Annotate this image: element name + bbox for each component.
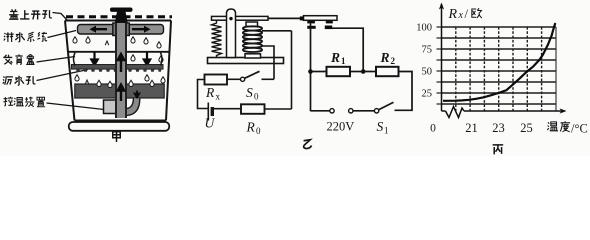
resistor R0 box [241, 104, 265, 114]
switch S0 [241, 77, 245, 81]
wire: Rx to S0 [227, 78, 240, 80]
right stationary contact [326, 21, 333, 24]
battery U [207, 103, 209, 121]
relay armature arm bar [212, 16, 269, 20]
temp control device box [104, 100, 117, 114]
resistor R1 box [327, 67, 351, 76]
svg-text:R: R [380, 50, 390, 65]
svg-text:25: 25 [422, 89, 433, 100]
axis break zigzag [446, 107, 465, 118]
svg-text:1: 1 [384, 126, 389, 136]
drops under tray [75, 75, 79, 81]
svg-text:50: 50 [422, 67, 433, 78]
svg-text:100: 100 [416, 23, 432, 34]
wire: node B to R2 [363, 71, 376, 73]
shelf rim line [68, 51, 169, 53]
relay spring [212, 21, 222, 58]
svg-text:75: 75 [422, 45, 433, 56]
wire: arm to contact plate [268, 17, 301, 19]
leader line to temp device [47, 103, 105, 110]
label 沥水孔 (drain holes) [3, 76, 36, 85]
relay armature (vertical, pivot dot) [227, 9, 236, 58]
svg-text:21: 21 [465, 121, 478, 135]
label 控温装置 (temperature control device) [3, 97, 45, 107]
central riser column [116, 23, 126, 118]
svg-text:R: R [246, 120, 256, 135]
node B (R1-R2 junction) [361, 69, 366, 74]
label 发育盒 (development box) [3, 54, 34, 64]
x axis title 温度/C [547, 122, 558, 131]
box body walls [65, 21, 171, 121]
svg-text:R: R [205, 85, 215, 100]
up arrow 1 in column [118, 54, 124, 72]
grid right border [555, 27, 557, 111]
resistor R2 box [376, 67, 399, 76]
svg-text:1: 1 [341, 56, 346, 66]
y axis ticks [437, 27, 442, 104]
svg-text:0: 0 [256, 126, 261, 136]
wire: R2 to right corner and down [395, 72, 413, 111]
wire: battery to R0 [212, 108, 241, 110]
drops falling into reservoir [97, 80, 101, 86]
relay base plate [208, 58, 284, 64]
base plate [69, 122, 169, 131]
sprinkler hub [113, 23, 130, 36]
svg-text:U: U [205, 116, 216, 131]
tray end lips [74, 53, 76, 66]
leader line to drain holes [37, 70, 89, 81]
left arrow in sprinkler [90, 26, 108, 33]
left stationary contact [307, 21, 315, 24]
dashed lid [66, 15, 172, 18]
wire: S1 to 220V terminal [353, 110, 374, 112]
svg-text:x: x [458, 10, 464, 21]
svg-text:0: 0 [430, 123, 436, 135]
label 盖上开孔 (holes in lid) [9, 9, 52, 19]
svg-text:S: S [377, 119, 384, 134]
flow arrow into tube [135, 91, 140, 98]
wire: right rail down to R0 [291, 31, 293, 109]
resistor Rx box [205, 75, 228, 85]
svg-text:2: 2 [391, 56, 396, 66]
label 乙 [304, 140, 312, 149]
y axis [441, 4, 443, 111]
svg-text:S: S [246, 85, 253, 100]
grid vertical lines (dashed) [456, 27, 542, 111]
svg-text:0: 0 [254, 92, 259, 102]
sprinkler arm bar [78, 25, 164, 35]
svg-text:/°C: /°C [571, 122, 588, 136]
svg-text:R: R [448, 7, 458, 22]
relay coil core caps [246, 22, 258, 27]
wire: coil top terminal to right rail [262, 30, 292, 32]
knob on top [110, 8, 133, 12]
relay contact plate [304, 16, 338, 21]
label 淋水系统 (sprinkling system) [4, 32, 47, 42]
wire: R0 to right rail [265, 108, 292, 110]
suction tube (hook) [127, 99, 136, 112]
svg-text:220V: 220V [327, 120, 355, 134]
switch S1 [374, 109, 378, 113]
leader line to tray [37, 57, 76, 63]
grid horizontal lines [442, 27, 557, 104]
water drops row 1 [73, 37, 77, 43]
220V supply terminals [349, 109, 353, 113]
Rx-temperature curve [443, 23, 555, 101]
label 甲 [113, 132, 121, 142]
water reservoir slab [75, 84, 164, 98]
wire: R1 to node B [350, 71, 363, 73]
wire: left rail [198, 80, 209, 109]
leader line to lid [53, 13, 68, 21]
relay coil windings [243, 26, 262, 52]
wire: node A to R1 [311, 71, 327, 73]
wire: terminal to left rail [311, 110, 330, 112]
svg-text:/: / [465, 7, 469, 21]
leader line to sprinkler [48, 31, 77, 38]
svg-text:23: 23 [492, 121, 505, 135]
tray down arrow right [144, 53, 150, 66]
label 丙 [493, 145, 504, 154]
drain hole teeth [76, 69, 162, 72]
node A (left junction) [308, 69, 313, 74]
svg-text:x: x [216, 92, 221, 102]
up arrow 2 in column [118, 85, 124, 102]
tray down arrow left [91, 53, 97, 66]
right arrow in sprinkler [132, 26, 151, 33]
wire: left contact down (left rail of mains circuit) [310, 23, 312, 111]
svg-text:R: R [330, 50, 340, 65]
svg-text:25: 25 [520, 121, 533, 135]
drops inside tray [131, 55, 135, 61]
wire: coil bottom terminal to S0 riser [262, 46, 274, 79]
wire: right contact to R1-R2 node [332, 28, 364, 71]
x axis with break zigzag [442, 110, 565, 112]
tray bottom plates (development box bottoms) [72, 65, 117, 70]
